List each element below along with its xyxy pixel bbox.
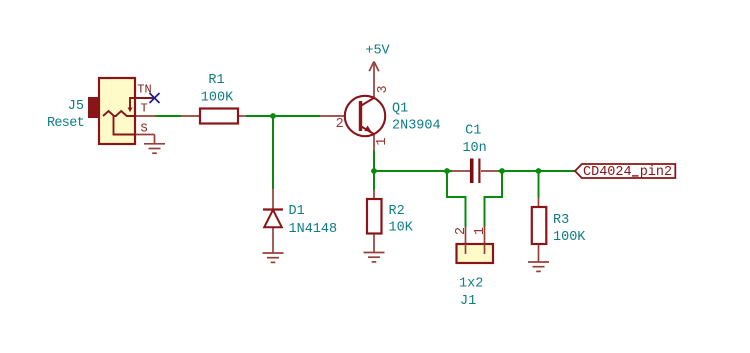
svg-text:1: 1	[375, 137, 390, 145]
svg-text:2N3904: 2N3904	[392, 118, 441, 133]
svg-text:R2: R2	[389, 204, 405, 219]
svg-text:2: 2	[454, 227, 469, 235]
svg-text:D1: D1	[289, 204, 305, 219]
svg-text:S: S	[141, 122, 148, 136]
svg-text:TN: TN	[137, 83, 151, 97]
svg-text:T: T	[141, 102, 148, 116]
svg-text:10n: 10n	[462, 141, 486, 156]
svg-text:1x2: 1x2	[459, 277, 483, 292]
svg-text:1: 1	[473, 227, 488, 235]
svg-text:Reset: Reset	[47, 116, 84, 131]
svg-text:Q1: Q1	[392, 101, 408, 116]
svg-text:C1: C1	[465, 123, 481, 138]
svg-text:10K: 10K	[389, 221, 414, 236]
svg-text:J5: J5	[68, 99, 84, 114]
svg-text:pin2: pin2	[640, 165, 672, 180]
svg-text:3: 3	[376, 85, 391, 93]
svg-text:1N4148: 1N4148	[289, 222, 338, 237]
svg-text:100K: 100K	[201, 91, 234, 106]
svg-text:J1: J1	[460, 294, 476, 309]
svg-text:R3: R3	[553, 213, 569, 228]
svg-text:100K: 100K	[553, 230, 586, 245]
svg-text:2: 2	[336, 117, 344, 132]
svg-text:+5V: +5V	[365, 44, 390, 59]
svg-text:CD4024: CD4024	[583, 165, 632, 180]
svg-text:R1: R1	[208, 73, 224, 88]
